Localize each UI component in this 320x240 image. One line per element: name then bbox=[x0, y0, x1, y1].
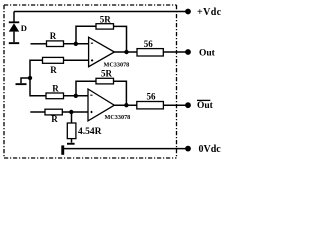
svg-text:+Vdc: +Vdc bbox=[197, 7, 222, 18]
wire R1 to op1 inverting input bbox=[64, 43, 89, 45]
wire op1 output to Out bbox=[114, 51, 188, 53]
node ground tap junction bbox=[28, 76, 32, 80]
wire 4.54R bottom lead bbox=[71, 139, 73, 143]
svg-text:D: D bbox=[21, 23, 27, 33]
svg-text:Out: Out bbox=[199, 49, 216, 59]
svg-text:MC33078: MC33078 bbox=[104, 62, 130, 69]
wire R3 to op2 inverting input bbox=[64, 95, 89, 97]
wire feedback 5R1 left bbox=[76, 26, 96, 44]
svg-text:5R: 5R bbox=[100, 14, 112, 24]
svg-text:R: R bbox=[50, 31, 57, 41]
diode D bbox=[9, 12, 19, 43]
wire R4 input stub bbox=[30, 111, 45, 113]
0Vdc terminal dot bbox=[185, 146, 191, 152]
ground G2 stub bbox=[21, 78, 30, 83]
node op1 output junction bbox=[124, 50, 128, 54]
node 4.54R tap junction bbox=[69, 110, 73, 114]
node op1 inverting input junction bbox=[74, 42, 78, 46]
svg-text:56: 56 bbox=[147, 91, 157, 101]
svg-text:5R: 5R bbox=[101, 69, 113, 79]
ground G2 bar bbox=[16, 83, 27, 85]
wire R4 to op2 non-inverting input bbox=[62, 111, 88, 113]
wire +Vdc rail bbox=[14, 11, 188, 13]
op-amp U1 bbox=[89, 37, 115, 66]
node op2 output junction bbox=[124, 103, 128, 107]
svg-text:Out: Out bbox=[197, 101, 214, 111]
wire feedback 5R1 right to op1 output bbox=[114, 26, 127, 52]
svg-text:0Vdc: 0Vdc bbox=[199, 144, 222, 155]
resistor R4 bbox=[45, 109, 62, 115]
ground end-cap bar on 0V rail bbox=[61, 145, 64, 154]
op-amp U2 bbox=[88, 89, 114, 121]
resistor 56 (lower) bbox=[137, 102, 164, 109]
wire feedback 5R2 left bbox=[76, 81, 96, 96]
wire 4.54R top lead bbox=[71, 112, 73, 123]
resistor R3 bbox=[46, 93, 64, 99]
resistor 5R1 bbox=[96, 24, 114, 29]
svg-text:MC33078: MC33078 bbox=[105, 114, 131, 121]
Out-bar terminal dot bbox=[185, 102, 191, 108]
wire op2 output to Out-bar bbox=[114, 104, 188, 106]
Out terminal dot bbox=[185, 49, 191, 55]
svg-text:R: R bbox=[51, 114, 58, 124]
resistor 56 (upper) bbox=[137, 49, 163, 56]
resistor 4.54R bbox=[67, 123, 76, 139]
resistor 5R2 bbox=[96, 78, 114, 84]
wire R1 input stub bbox=[31, 43, 47, 45]
node op2 inverting input junction bbox=[74, 94, 78, 98]
ground bar under diode D bbox=[9, 42, 19, 44]
Out-bar overline bbox=[197, 99, 210, 101]
wire op1 non-inverting input bbox=[64, 59, 89, 61]
resistor R2 bbox=[43, 57, 64, 63]
resistor R1 bbox=[47, 41, 64, 47]
svg-text:R: R bbox=[50, 65, 57, 75]
wire R2 left down bias rail bbox=[30, 60, 47, 96]
ground G3 bar bbox=[67, 143, 75, 145]
svg-text:56: 56 bbox=[144, 39, 154, 49]
svg-text:4.54R: 4.54R bbox=[78, 127, 102, 137]
+Vdc terminal dot bbox=[185, 9, 191, 15]
wire 0Vdc rail bbox=[63, 148, 188, 150]
enclosure boundary dash-dot frame bbox=[4, 5, 177, 158]
svg-text:R: R bbox=[52, 83, 59, 93]
wire feedback 5R2 right to op2 output bbox=[114, 81, 127, 105]
